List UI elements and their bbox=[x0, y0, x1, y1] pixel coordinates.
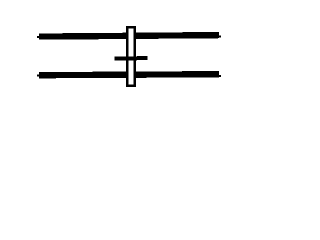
wire (top conductor) bbox=[37, 35, 221, 38]
component body (feedthrough rectangle) bbox=[127, 27, 134, 85]
center electrode line bbox=[114, 56, 147, 61]
wire (bottom conductor) bbox=[37, 74, 221, 77]
